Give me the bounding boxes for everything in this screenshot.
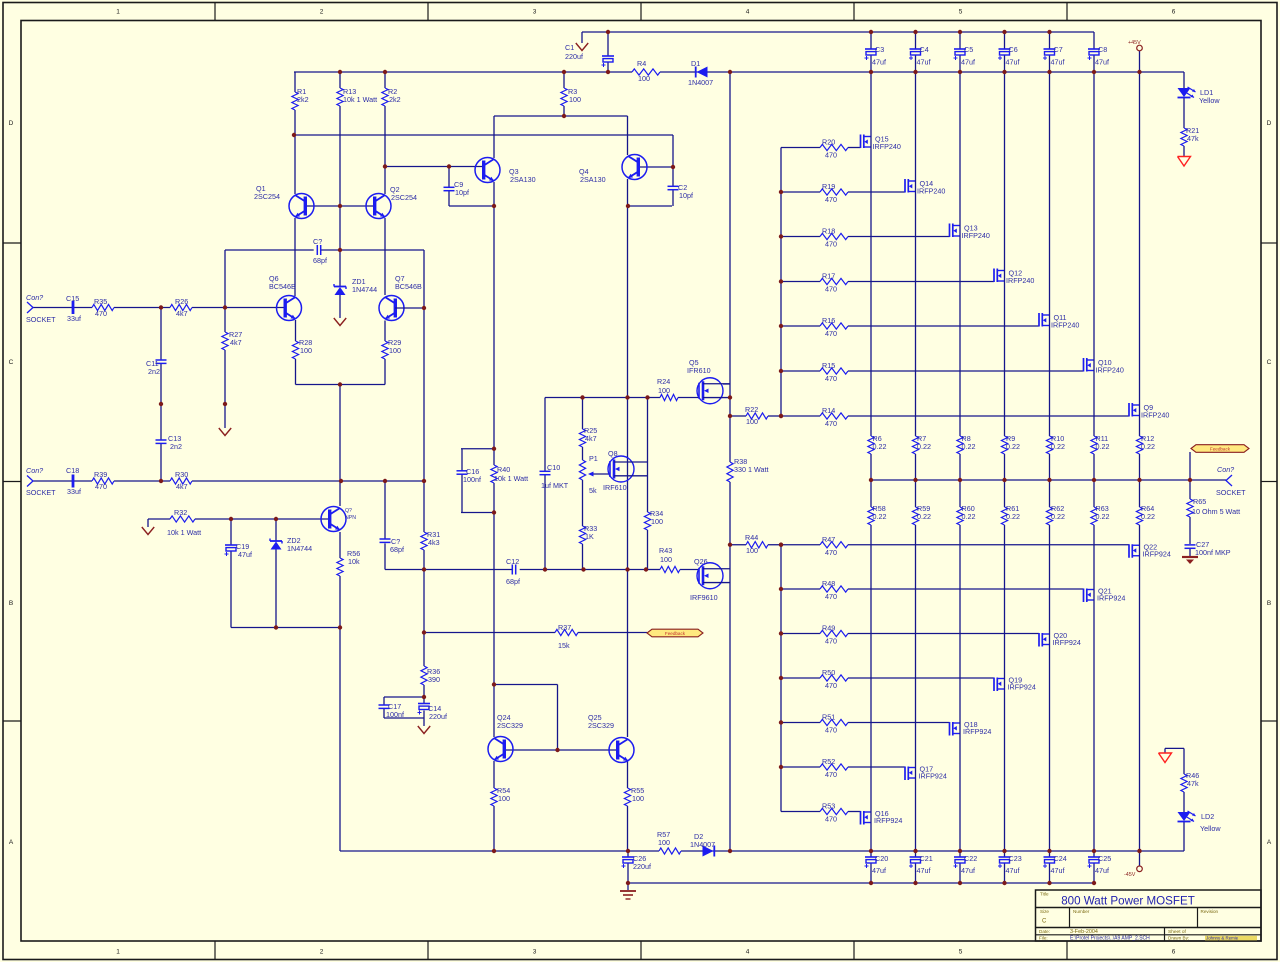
- svg-text:R30: R30: [175, 470, 188, 479]
- svg-text:SOCKET: SOCKET: [26, 488, 56, 497]
- svg-text:100: 100: [658, 386, 670, 395]
- svg-text:100: 100: [746, 546, 758, 555]
- svg-text:Revision: Revision: [1201, 909, 1219, 914]
- svg-text:2: 2: [320, 9, 324, 16]
- svg-text:68pf: 68pf: [313, 256, 327, 265]
- svg-text:Date:: Date:: [1039, 929, 1050, 934]
- svg-text:C18: C18: [66, 466, 79, 475]
- svg-text:470: 470: [825, 374, 837, 383]
- svg-text:R22: R22: [745, 405, 758, 414]
- svg-text:470: 470: [825, 419, 837, 428]
- svg-text:100: 100: [746, 417, 758, 426]
- svg-text:2n2: 2n2: [148, 367, 160, 376]
- svg-text:0.22: 0.22: [1051, 512, 1065, 521]
- svg-text:C25: C25: [1098, 854, 1111, 863]
- svg-text:Title: Title: [1040, 892, 1049, 897]
- svg-text:1N4007: 1N4007: [688, 78, 713, 87]
- svg-text:5: 5: [959, 9, 963, 16]
- svg-text:390: 390: [428, 675, 440, 684]
- svg-text:15k: 15k: [558, 641, 570, 650]
- svg-text:470: 470: [825, 592, 837, 601]
- svg-text:470: 470: [825, 240, 837, 249]
- svg-text:R19: R19: [822, 182, 835, 191]
- svg-text:C10: C10: [547, 463, 560, 472]
- svg-text:10pf: 10pf: [679, 191, 693, 200]
- svg-text:470: 470: [825, 329, 837, 338]
- svg-text:Yellow: Yellow: [1200, 824, 1221, 833]
- svg-text:470: 470: [825, 637, 837, 646]
- svg-text:IRFP924: IRFP924: [1143, 549, 1171, 558]
- svg-text:C4: C4: [920, 45, 929, 54]
- svg-text:R24: R24: [657, 377, 670, 386]
- svg-text:220uf: 220uf: [633, 862, 651, 871]
- svg-text:R14: R14: [822, 406, 835, 415]
- svg-text:R16: R16: [822, 316, 835, 325]
- svg-text:R17: R17: [822, 272, 835, 281]
- svg-text:470: 470: [825, 770, 837, 779]
- svg-text:File:: File:: [1039, 936, 1048, 941]
- svg-text:2SC329: 2SC329: [497, 721, 523, 730]
- svg-text:IRFP240: IRFP240: [1006, 276, 1034, 285]
- svg-text:C6: C6: [1009, 45, 1018, 54]
- svg-text:D: D: [1267, 120, 1272, 127]
- svg-text:2SA130: 2SA130: [580, 175, 606, 184]
- svg-text:47uf: 47uf: [238, 550, 252, 559]
- svg-text:R65: R65: [1193, 497, 1206, 506]
- svg-text:47uf: 47uf: [1095, 58, 1109, 67]
- svg-text:6: 6: [1172, 9, 1176, 16]
- svg-text:47uf: 47uf: [961, 58, 975, 67]
- svg-text:C?: C?: [313, 237, 322, 246]
- svg-text:0.22: 0.22: [1141, 512, 1155, 521]
- svg-text:2: 2: [320, 949, 324, 956]
- svg-text:C: C: [1267, 359, 1272, 366]
- svg-text:C: C: [1042, 919, 1047, 925]
- svg-text:3-Feb-2004: 3-Feb-2004: [1070, 929, 1098, 935]
- svg-text:IRFP240: IRFP240: [962, 231, 990, 240]
- svg-text:Drawn By:: Drawn By:: [1168, 936, 1189, 941]
- svg-text:10k 1 Watt: 10k 1 Watt: [494, 474, 528, 483]
- svg-text:470: 470: [95, 309, 107, 318]
- svg-text:IRFP924: IRFP924: [1053, 638, 1081, 647]
- svg-text:470: 470: [825, 285, 837, 294]
- svg-text:Q8: Q8: [608, 449, 618, 458]
- svg-text:C21: C21: [920, 854, 933, 863]
- svg-text:C5: C5: [964, 45, 973, 54]
- svg-text:33uf: 33uf: [67, 487, 81, 496]
- svg-text:0.22: 0.22: [962, 512, 976, 521]
- svg-text:4k7: 4k7: [585, 434, 597, 443]
- svg-text:47uf: 47uf: [1006, 866, 1020, 875]
- svg-text:2k2: 2k2: [389, 95, 401, 104]
- svg-text:4: 4: [746, 9, 750, 16]
- svg-text:R44: R44: [745, 533, 758, 542]
- svg-text:C8: C8: [1098, 45, 1107, 54]
- svg-text:0.22: 0.22: [962, 442, 976, 451]
- svg-text:NPN: NPN: [345, 515, 356, 521]
- svg-text:0.22: 0.22: [1006, 512, 1020, 521]
- svg-text:C7: C7: [1054, 45, 1063, 54]
- svg-text:5k: 5k: [589, 486, 597, 495]
- svg-text:220uf: 220uf: [429, 712, 447, 721]
- svg-text:R26: R26: [175, 297, 188, 306]
- svg-text:R48: R48: [822, 579, 835, 588]
- svg-text:6: 6: [1172, 949, 1176, 956]
- svg-text:Feedback: Feedback: [1210, 446, 1231, 451]
- svg-text:IRFP240: IRFP240: [873, 142, 901, 151]
- svg-text:0.22: 0.22: [873, 442, 887, 451]
- svg-text:100nf: 100nf: [386, 710, 404, 719]
- svg-text:R37: R37: [558, 623, 571, 632]
- svg-text:3: 3: [533, 9, 537, 16]
- svg-text:470: 470: [825, 151, 837, 160]
- svg-text:1N4007: 1N4007: [690, 840, 715, 849]
- svg-text:47uf: 47uf: [872, 866, 886, 875]
- svg-text:IRF9610: IRF9610: [690, 593, 718, 602]
- svg-text:68pf: 68pf: [506, 577, 520, 586]
- svg-text:47k: 47k: [1187, 779, 1199, 788]
- svg-text:4k7: 4k7: [176, 482, 188, 491]
- svg-text:IRFP924: IRFP924: [963, 727, 991, 736]
- svg-text:Con?: Con?: [1217, 465, 1234, 474]
- svg-text:47uf: 47uf: [1051, 866, 1065, 875]
- svg-text:E:\Protel Projects\..\A9 AMP_2: E:\Protel Projects\..\A9 AMP_2.SCH: [1070, 936, 1150, 942]
- svg-text:IRFP924: IRFP924: [874, 816, 902, 825]
- svg-text:A: A: [9, 839, 14, 846]
- svg-text:2k2: 2k2: [297, 95, 309, 104]
- svg-text:R53: R53: [822, 802, 835, 811]
- svg-text:Feedback: Feedback: [665, 631, 686, 636]
- svg-text:Q26: Q26: [694, 557, 708, 566]
- svg-text:IRF610: IRF610: [603, 483, 627, 492]
- svg-text:A: A: [1267, 839, 1272, 846]
- svg-text:100nf: 100nf: [463, 475, 481, 484]
- svg-text:10k: 10k: [348, 557, 360, 566]
- svg-text:Yellow: Yellow: [1199, 96, 1220, 105]
- svg-text:D: D: [9, 120, 14, 127]
- svg-text:10k 1 Watt: 10k 1 Watt: [343, 95, 377, 104]
- svg-text:47uf: 47uf: [917, 866, 931, 875]
- svg-text:0.22: 0.22: [917, 512, 931, 521]
- svg-text:1: 1: [116, 949, 120, 956]
- svg-text:47uf: 47uf: [961, 866, 975, 875]
- svg-text:33uf: 33uf: [67, 314, 81, 323]
- svg-text:IRFP924: IRFP924: [1097, 594, 1125, 603]
- svg-text:4k3: 4k3: [428, 538, 440, 547]
- svg-text:2n2: 2n2: [170, 442, 182, 451]
- svg-text:R47: R47: [822, 535, 835, 544]
- svg-text:R15: R15: [822, 361, 835, 370]
- svg-text:C3: C3: [875, 45, 884, 54]
- svg-text:220uf: 220uf: [565, 52, 583, 61]
- svg-text:IRFP240: IRFP240: [1141, 411, 1169, 420]
- svg-text:4k7: 4k7: [230, 338, 242, 347]
- svg-text:4k7: 4k7: [176, 309, 188, 318]
- svg-text:0.22: 0.22: [1096, 442, 1110, 451]
- svg-text:330 1 Watt: 330 1 Watt: [734, 465, 769, 474]
- svg-text:1N4744: 1N4744: [352, 285, 377, 294]
- svg-text:Con?: Con?: [26, 293, 43, 302]
- svg-text:470: 470: [825, 726, 837, 735]
- svg-text:Sheet of: Sheet of: [1168, 929, 1187, 935]
- svg-text:R4: R4: [637, 59, 646, 68]
- svg-text:4: 4: [746, 949, 750, 956]
- svg-text:100: 100: [389, 346, 401, 355]
- svg-text:D1: D1: [691, 59, 700, 68]
- svg-text:R40: R40: [497, 465, 510, 474]
- svg-text:470: 470: [825, 548, 837, 557]
- svg-text:0.22: 0.22: [1006, 442, 1020, 451]
- svg-text:0.22: 0.22: [1096, 512, 1110, 521]
- svg-text:100: 100: [632, 794, 644, 803]
- svg-text:P1: P1: [589, 454, 598, 463]
- svg-text:R50: R50: [822, 668, 835, 677]
- svg-text:2SC254: 2SC254: [254, 192, 280, 201]
- svg-text:1K: 1K: [585, 532, 594, 541]
- svg-text:R49: R49: [822, 624, 835, 633]
- svg-text:SOCKET: SOCKET: [26, 315, 56, 324]
- svg-text:800 Watt Power MOSFET: 800 Watt Power MOSFET: [1061, 895, 1195, 908]
- svg-text:R18: R18: [822, 227, 835, 236]
- svg-text:10k 1 Watt: 10k 1 Watt: [167, 528, 201, 537]
- svg-text:100nf MKP: 100nf MKP: [1195, 548, 1231, 557]
- svg-text:C: C: [9, 359, 14, 366]
- svg-text:100: 100: [658, 838, 670, 847]
- svg-text:SOCKET: SOCKET: [1216, 488, 1246, 497]
- svg-text:0.22: 0.22: [917, 442, 931, 451]
- svg-text:47uf: 47uf: [1051, 58, 1065, 67]
- svg-text:LD2: LD2: [1201, 812, 1214, 821]
- svg-text:1uf MKT: 1uf MKT: [541, 481, 569, 490]
- svg-text:Q?: Q?: [345, 508, 352, 514]
- svg-text:IRFP240: IRFP240: [917, 187, 945, 196]
- svg-text:68pf: 68pf: [390, 545, 404, 554]
- svg-text:100: 100: [660, 555, 672, 564]
- svg-text:5: 5: [959, 949, 963, 956]
- svg-text:IFR610: IFR610: [687, 366, 711, 375]
- svg-text:B: B: [9, 600, 13, 607]
- svg-text:100: 100: [498, 794, 510, 803]
- svg-text:R51: R51: [822, 713, 835, 722]
- svg-text:IRFP240: IRFP240: [1051, 321, 1079, 330]
- svg-text:470: 470: [825, 195, 837, 204]
- svg-text:R39: R39: [94, 470, 107, 479]
- svg-text:2SC329: 2SC329: [588, 721, 614, 730]
- svg-text:47uf: 47uf: [917, 58, 931, 67]
- svg-text:-45V: -45V: [1124, 872, 1136, 878]
- svg-text:Johnny & Remie: Johnny & Remie: [1206, 936, 1239, 941]
- svg-text:IRFP240: IRFP240: [1096, 366, 1124, 375]
- svg-text:C1: C1: [565, 43, 574, 52]
- svg-text:47uf: 47uf: [1095, 866, 1109, 875]
- svg-text:IRFP924: IRFP924: [919, 772, 947, 781]
- svg-text:0.22: 0.22: [1051, 442, 1065, 451]
- svg-text:470: 470: [825, 815, 837, 824]
- svg-text:47uf: 47uf: [872, 58, 886, 67]
- svg-text:1N4744: 1N4744: [287, 544, 312, 553]
- svg-text:C23: C23: [1009, 854, 1022, 863]
- svg-text:100: 100: [651, 517, 663, 526]
- svg-text:R35: R35: [94, 297, 107, 306]
- svg-text:2SC254: 2SC254: [391, 193, 417, 202]
- svg-text:100: 100: [569, 95, 581, 104]
- svg-text:0.22: 0.22: [873, 512, 887, 521]
- svg-text:10pf: 10pf: [455, 188, 469, 197]
- svg-text:C24: C24: [1054, 854, 1067, 863]
- svg-text:3: 3: [533, 949, 537, 956]
- svg-text:1: 1: [116, 9, 120, 16]
- svg-text:B: B: [1267, 600, 1271, 607]
- svg-text:R32: R32: [174, 508, 187, 517]
- svg-text:BC546B: BC546B: [269, 282, 296, 291]
- svg-text:47uf: 47uf: [1006, 58, 1020, 67]
- svg-text:C20: C20: [875, 854, 888, 863]
- svg-text:470: 470: [825, 681, 837, 690]
- svg-text:Size: Size: [1040, 909, 1049, 914]
- svg-text:R20: R20: [822, 138, 835, 147]
- svg-text:Number: Number: [1073, 909, 1090, 914]
- svg-text:47k: 47k: [1187, 134, 1199, 143]
- svg-text:470: 470: [95, 482, 107, 491]
- svg-text:C15: C15: [66, 294, 79, 303]
- svg-text:C12: C12: [506, 557, 519, 566]
- svg-text:Con?: Con?: [26, 466, 43, 475]
- svg-text:100: 100: [300, 346, 312, 355]
- svg-text:10 Ohm 5 Watt: 10 Ohm 5 Watt: [1192, 507, 1240, 516]
- svg-text:IRFP924: IRFP924: [1008, 683, 1036, 692]
- svg-text:BC546B: BC546B: [395, 282, 422, 291]
- svg-text:+45V: +45V: [1128, 40, 1141, 46]
- svg-text:0.22: 0.22: [1141, 442, 1155, 451]
- svg-text:C22: C22: [964, 854, 977, 863]
- svg-text:R52: R52: [822, 757, 835, 766]
- svg-text:R43: R43: [659, 546, 672, 555]
- svg-text:100: 100: [638, 74, 650, 83]
- svg-text:2SA130: 2SA130: [510, 175, 536, 184]
